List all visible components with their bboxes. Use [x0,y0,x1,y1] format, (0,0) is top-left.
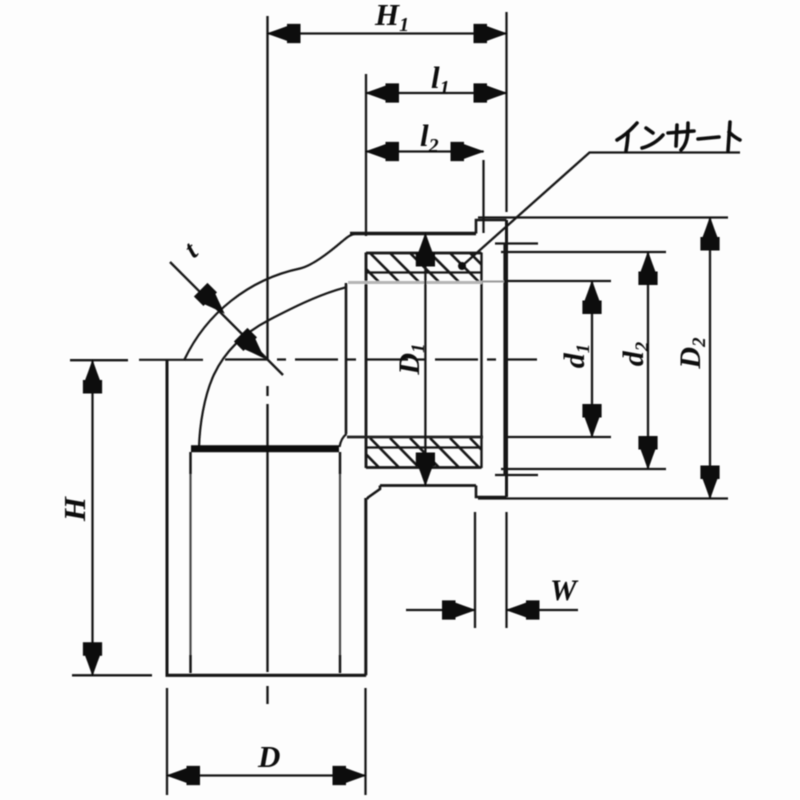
dimension l2 [366,152,484,234]
face chamfer tick bottom [495,474,538,476]
face chamfer tick top [495,242,538,244]
dimension d2 (right) [501,252,666,469]
svg-text:D: D [257,739,280,774]
dimension D1 (inside socket) [424,232,426,486]
face opening bore vertical [503,244,505,476]
socket bore lines (light) [348,281,482,284]
dimension D (bottom) [167,688,366,795]
dimension l1 [366,74,507,236]
insert left end face [365,253,368,469]
insert (hatched rings) [366,253,482,469]
dimension t (wall thickness, diagonal) [170,262,283,375]
vertical centerline of lower leg [266,16,268,360]
elbow body outline: left leg and outer bend curve to socket top [166,234,477,676]
insert leader line [462,153,740,267]
dimension D2 (right) [478,218,728,499]
outer bend curve (arc A) with S-transition into socket top [184,234,356,361]
hatching of insert bottom ring [350,438,499,468]
bottom ring division line [366,446,482,448]
leg socket stop shoulder (thick band) [191,445,339,452]
flange bottom [476,486,507,498]
top ring division line [366,271,482,273]
dimension W (flange width) [406,512,578,628]
socket cavity end face [345,283,348,434]
bend bore curve (arc B) [199,287,346,448]
socket outer bottom line [380,484,476,487]
flange right face [505,220,508,497]
insert label (katakana) [617,122,740,151]
dimension H1 (top) [268,12,507,212]
inner corner fillet between leg bore and socket [340,434,347,447]
leg outer right edge [364,498,367,675]
dimension H (left) [70,360,152,675]
svg-text:W: W [550,574,579,607]
leg bore left wall [189,452,191,673]
svg-text:H: H [57,496,92,522]
insert right end face [480,253,482,469]
socket outer top line [350,232,476,235]
leg outer left edge [166,361,169,676]
flange at right end of socket [476,220,538,497]
bottom ring outer line [366,466,482,469]
flange top [476,220,507,234]
leg bore right wall [339,452,341,673]
dimension d1 (right) [504,281,611,437]
top ring outer line [366,252,482,255]
hatching of insert top ring [350,253,499,282]
horizontal centerline of side socket [139,359,203,361]
leg bottom face [166,674,367,677]
lower-left transition from socket bottom to leg [367,486,380,500]
